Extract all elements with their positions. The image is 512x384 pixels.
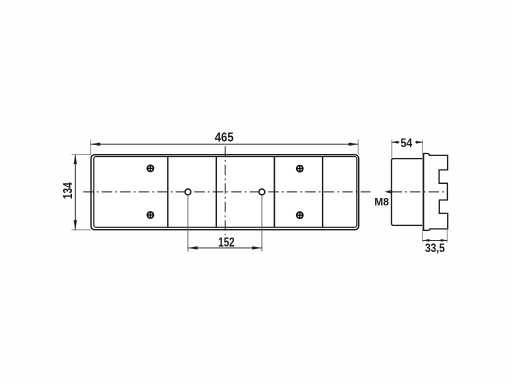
front view: lamp outer housing rect — [91, 155, 359, 230]
dim 152: arrow right — [252, 246, 262, 249]
dim 465: extension line right — [357, 139, 359, 154]
svg-text:152: 152 — [218, 234, 234, 249]
side view: lamp body rect — [392, 159, 424, 226]
svg-text:54: 54 — [401, 136, 413, 150]
dim 54: dimension line right stub — [415, 141, 423, 143]
svg-text:M8: M8 — [374, 197, 389, 209]
dim 33,5: arrow left — [423, 239, 430, 242]
dim 33,5: dimension line — [423, 239, 448, 241]
svg-text:465: 465 — [215, 129, 234, 144]
screw symbol bottom-left — [147, 212, 154, 219]
dim 134: arrow top — [74, 155, 77, 165]
vertical centerline — [224, 146, 226, 235]
dim 465: arrow left — [91, 143, 101, 146]
mounting hole right — [259, 189, 265, 195]
lens divider 4 — [322, 157, 324, 228]
dim 134: extension line bottom — [72, 229, 92, 231]
M8 stud arrow — [385, 190, 391, 193]
dim 54: dimension line left stub — [392, 141, 400, 143]
side view: rear housing with castle teeth — [424, 154, 448, 231]
dim 33,5: extension line right — [446, 230, 448, 242]
dim 152: leader line from left hole — [187, 195, 189, 252]
dim 54: extension line left (above body) — [391, 140, 393, 158]
dim 54: long grey extension line right — [422, 140, 424, 243]
svg-text:134: 134 — [60, 182, 75, 199]
dim 134: arrow bottom — [74, 220, 77, 230]
dim 134: dimension line — [74, 155, 76, 230]
lens divider 2 — [215, 157, 217, 228]
horizontal centerline (side view part) — [392, 191, 446, 193]
dim 54: arrow left — [392, 141, 399, 144]
dim 152: arrow left — [188, 246, 198, 249]
lens divider 1 — [167, 157, 169, 228]
horizontal centerline (front view part) — [83, 191, 370, 193]
dim 54: arrow right — [416, 141, 423, 144]
screw symbol top-left — [147, 165, 154, 172]
front view: lens inner rect — [94, 157, 357, 228]
dim 33,5: arrow right — [441, 239, 448, 242]
dim 152: dimension line — [188, 247, 262, 249]
dim 465: extension line left — [90, 139, 92, 154]
lens divider 3 — [273, 157, 275, 228]
screw symbol top-right — [297, 165, 304, 172]
dim 465: arrow right — [349, 143, 359, 146]
dim 134: extension line top — [72, 154, 92, 156]
mounting hole left — [185, 189, 191, 195]
svg-text:33,5: 33,5 — [425, 241, 445, 255]
dim 465: dimension line — [91, 143, 359, 145]
dim 152: leader line from right hole — [261, 195, 263, 252]
screw symbol bottom-right — [297, 212, 304, 219]
